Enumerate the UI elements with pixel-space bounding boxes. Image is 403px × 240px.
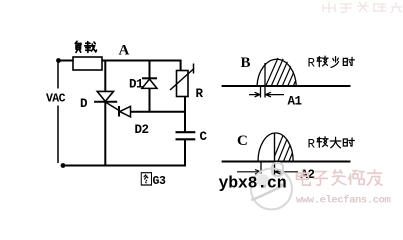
node top-left junction dot — [56, 58, 61, 63]
rheostat R arrow — [170, 64, 194, 91]
diode D1 triangle — [142, 79, 157, 88]
waveform C half-sine pulse outline — [258, 133, 293, 162]
label 负载 (load) — [75, 41, 96, 52]
waveform C delay tick below axis — [260, 162, 262, 174]
thyristor D vertical anode lead from rail — [104, 60, 106, 92]
svg-text:R: R — [308, 138, 316, 152]
svg-text:www.elecfans.com: www.elecfans.com — [296, 195, 391, 207]
wire: R bottom lead down to capacitor — [184, 97, 186, 133]
diode D1 branch wire from rail — [149, 60, 151, 112]
svg-text:ybx8.cn: ybx8.cn — [219, 174, 287, 193]
wire: gate wire from D2 to right branch — [131, 111, 186, 113]
svg-text:D2: D2 — [135, 123, 149, 137]
diode D2 cathode bar — [118, 106, 120, 117]
wire: VAC source left branch upper segment — [57, 62, 59, 89]
svg-text:VAC: VAC — [46, 93, 66, 106]
rheostat R box — [177, 71, 189, 97]
thyristor D cathode lead to bottom wire — [104, 102, 106, 166]
wire: capacitor bottom lead — [184, 139, 186, 165]
waveform C dimension arrows A2 — [237, 170, 298, 175]
wire: bottom rail — [63, 165, 186, 167]
label 图G3 figure caption — [141, 173, 151, 185]
axis line waveform B — [222, 85, 351, 87]
node bottom-left junction dot — [61, 163, 66, 168]
capacitor C bottom plate — [176, 138, 196, 140]
diode D1 cathode bar — [142, 77, 157, 79]
watermark grey swirl logo — [251, 163, 292, 210]
wire: top-left node to load — [61, 60, 74, 62]
svg-text:G3: G3 — [153, 175, 167, 188]
diode D2 triangle — [120, 106, 131, 117]
svg-text:C: C — [237, 133, 248, 149]
thyristor D cathode bar — [94, 101, 117, 103]
waveform B dimension arrows A1 — [249, 92, 284, 97]
capacitor C top plate — [176, 131, 196, 133]
thyristor D triangle — [97, 91, 113, 101]
svg-text:C: C — [200, 130, 208, 144]
svg-text:A1: A1 — [288, 95, 302, 109]
svg-text:R: R — [308, 57, 316, 71]
svg-text:A: A — [119, 43, 130, 59]
svg-text:D1: D1 — [129, 78, 143, 92]
wire: top rail from load to R corner — [102, 60, 181, 62]
watermark faint top-right 电子发烧友 — [323, 2, 402, 13]
svg-text:D: D — [80, 97, 88, 111]
thyristor D gate wire diagonal — [106, 103, 124, 114]
waveform B firing line — [264, 63, 266, 86]
waveform B delay ticks below axis — [261, 86, 266, 98]
axis line waveform C — [222, 161, 351, 163]
svg-text:R: R — [196, 87, 204, 101]
waveform C firing line — [274, 133, 276, 175]
watermark 电子发烧友 red calligraphy — [297, 170, 383, 185]
wire: corner down to rheostat R — [180, 60, 182, 71]
waveform B half-sine pulse outline — [257, 59, 296, 86]
wire: VAC source left branch lower segment — [57, 106, 59, 164]
resistor load box (负载) — [73, 57, 102, 70]
svg-text:B: B — [241, 55, 251, 71]
